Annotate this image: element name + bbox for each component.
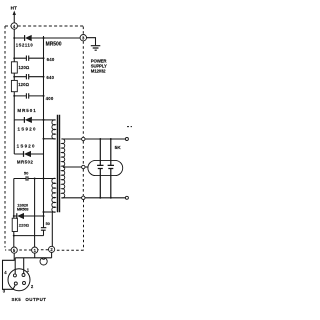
DIN pin bottom-left: [14, 282, 17, 285]
wire bus to primary top: [44, 119, 56, 121]
svg-text:1S2110: 1S2110: [16, 43, 34, 48]
diode D4 1S920/MR503 (cathode left): [16, 213, 18, 219]
svg-text:1S920: 1S920: [17, 143, 36, 148]
capacitor 640 (row2): [26, 74, 28, 79]
node bus row3: [43, 95, 45, 97]
capacitor C4 50: [26, 176, 28, 181]
wire diode D2 row to bus and transformer top: [14, 119, 43, 121]
wire: pin4 down to diode row: [13, 29, 15, 38]
plug pin 1: [32, 247, 38, 253]
wire to tube left: [85, 166, 88, 168]
diode D1 1S2110 (cathode left): [24, 35, 26, 41]
wire plug1 down to lamp row: [34, 253, 36, 258]
lamp: [40, 258, 47, 265]
svg-text:OUTPUT: OUTPUT: [25, 297, 46, 302]
rail R2 down to D2 row: [13, 92, 15, 120]
svg-text:MR503: MR503: [17, 207, 29, 211]
wire cap row2: [14, 76, 43, 78]
riser to plug 1: [34, 179, 36, 248]
plug pin 2: [49, 246, 55, 252]
node bus diode2 row: [43, 119, 45, 121]
node bus row1: [43, 57, 45, 59]
node bus winding row: [43, 211, 45, 213]
terminal on boundary (top): [82, 137, 85, 140]
node cap row 1: [13, 57, 15, 59]
wire to tube bottom row: [85, 197, 125, 199]
wire plug2 down to lamp row: [51, 253, 53, 258]
wire: diode D1 row: [14, 37, 43, 39]
end terminal bottom: [125, 196, 128, 199]
svg-text:1S920: 1S920: [18, 126, 37, 131]
svg-text:5K: 5K: [115, 145, 122, 151]
main left rail upper: [13, 38, 15, 62]
HT arrow: [13, 14, 15, 23]
wire to tube top: [85, 138, 125, 140]
node cap50/bus: [43, 178, 45, 180]
wire primary upper bottom to bus: [44, 138, 56, 140]
plug pin 5: [11, 247, 17, 253]
diode D2 1S920/MR501 (cathode left): [23, 117, 25, 123]
svg-text:MR502: MR502: [17, 160, 34, 165]
svg-text:400: 400: [46, 96, 54, 101]
wire: plug3 to ground: [87, 38, 96, 46]
rail diode2 to diode3: [13, 120, 15, 154]
lower left rail: [13, 179, 15, 219]
svg-text:SK5: SK5: [12, 297, 22, 302]
terminal on boundary (bottom): [82, 196, 85, 199]
bus (right vertical of ladder): [43, 36, 45, 228]
node cap50/riser: [34, 178, 36, 180]
dashed unit boundary bottom edge: [5, 249, 84, 251]
riser winding bottom to plug 2: [51, 212, 53, 246]
nodes tube bottom: [99, 197, 101, 199]
dashed unit boundary right edge (below plug 3): [82, 41, 84, 137]
dashed unit boundary left edge: [4, 26, 6, 248]
transformer T1 secondary: [61, 139, 64, 198]
DIN pin bottom-right: [23, 282, 26, 285]
DIN pin top-right: [22, 274, 25, 277]
rail R1 to R2: [13, 73, 15, 80]
plug pin 3: [80, 35, 86, 41]
transformer T1 primary lower section: [52, 178, 56, 212]
svg-text:50: 50: [24, 171, 29, 176]
resistor R3 220Ω: [12, 218, 17, 231]
terminal on boundary (mid): [82, 165, 85, 168]
node bus diode4: [43, 215, 45, 217]
svg-text:220Ω: 220Ω: [19, 222, 30, 227]
wire cap row1: [14, 57, 43, 59]
svg-text:M12032: M12032: [91, 69, 106, 74]
dashed unit boundary right edge upper: [82, 27, 84, 35]
tube element 2 leads and plates: [108, 139, 114, 198]
diode D3 1S920/MR502 (cathode left): [23, 151, 25, 157]
transformer core: [58, 115, 60, 212]
nodes tube top: [99, 138, 101, 140]
node bus row2: [43, 76, 45, 78]
resistor R2 120Ω: [11, 80, 17, 91]
node below R3: [13, 235, 15, 237]
svg-text:120Ω: 120Ω: [19, 65, 30, 70]
node bus top: [43, 37, 45, 39]
capacitor 640 (row1): [26, 56, 28, 61]
svg-text:50: 50: [46, 222, 50, 226]
node cap row 3: [13, 95, 15, 97]
wire winding bottom row: [44, 211, 56, 213]
svg-text:HT: HT: [11, 5, 18, 10]
DIN pin top-left: [13, 274, 16, 277]
rail to plug5: [13, 232, 15, 248]
wire cap50 row: [14, 178, 56, 180]
wire diode D3 row: [14, 153, 43, 155]
wire: bus to plug 3: [44, 37, 81, 39]
DIN socket SK5: [8, 269, 30, 291]
svg-text:MR501: MR501: [17, 108, 36, 113]
tube element 1 leads and plates: [97, 139, 103, 198]
transformer T1 primary upper section: [52, 120, 56, 139]
svg-text:640: 640: [47, 57, 55, 62]
wire plug5 to DIN pin3 (left routing): [3, 253, 16, 289]
lamp row wire: [15, 257, 51, 259]
node cap row 2: [13, 76, 15, 78]
wire diode D4 row: [14, 215, 44, 217]
node bus winding tap: [43, 138, 45, 140]
wire secondary mid tap: [64, 166, 82, 168]
node at rail/diode row: [13, 37, 15, 39]
risers lamp row to DIN pins: [15, 258, 24, 274]
capacitor C5 50 (vertical): [41, 228, 46, 231]
svg-text:640: 640: [46, 75, 54, 80]
ground: [91, 46, 101, 51]
wire secondary bottom tap: [61, 197, 81, 199]
node rail diode4: [13, 215, 15, 217]
wire secondary top tap: [61, 138, 81, 140]
dashed unit boundary top edge: [5, 25, 83, 27]
resistor R1 120Ω: [11, 62, 17, 73]
wire below R3 to cap C5: [14, 230, 44, 235]
wire cap row3: [14, 95, 43, 97]
plug pin 4: [11, 23, 17, 29]
end terminal top: [125, 138, 128, 141]
svg-text:MR500: MR500: [46, 41, 62, 47]
svg-text:120Ω: 120Ω: [18, 82, 29, 87]
capacitor 400 (row3): [26, 93, 28, 98]
node secondary mid tap: [63, 166, 65, 168]
dashed stub top right: [127, 126, 132, 128]
tube envelope: [88, 160, 123, 175]
